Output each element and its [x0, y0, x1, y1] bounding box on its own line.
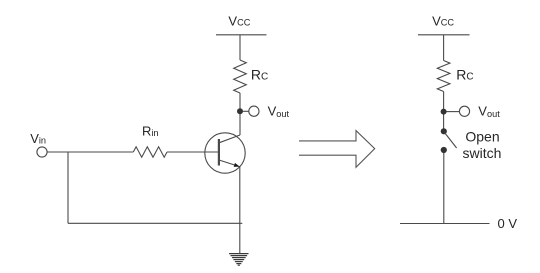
- transistor Q1 body circle: [205, 133, 245, 173]
- wire emitter to ground: [239, 167, 241, 254]
- node Vout junction dot (left): [237, 108, 243, 114]
- wire junction to Vout terminal (right): [446, 111, 459, 113]
- wire Rin to base: [167, 151, 218, 153]
- wire Rc to switch (right): [443, 92, 445, 129]
- wire junction to Vout terminal (left): [243, 110, 249, 112]
- svg-text:Vout: Vout: [268, 104, 290, 119]
- wire Vcc rail to Rc (right): [443, 35, 445, 61]
- ground: [229, 254, 248, 266]
- switch top contact dot: [441, 128, 447, 134]
- Vout terminal circle (right): [459, 106, 469, 116]
- Vout terminal circle (left): [249, 106, 259, 116]
- Vin terminal circle: [37, 147, 47, 157]
- resistor Rin: [133, 147, 167, 157]
- wire Rc to collector: [239, 93, 241, 135]
- node Vout junction dot (right): [441, 109, 447, 115]
- transistor Q1 base bar: [218, 139, 220, 166]
- switch blade: [445, 133, 457, 148]
- resistor Rc (left): [234, 60, 247, 93]
- transistor Q1 emitter diagonal: [219, 160, 240, 167]
- transistor Q1 collector diagonal: [219, 135, 240, 143]
- switch bottom contact dot: [441, 147, 447, 153]
- svg-text:Rin: Rin: [142, 124, 159, 139]
- svg-text:switch: switch: [463, 145, 502, 161]
- wire Vin to Rin: [47, 151, 133, 153]
- resistor Rc (right): [437, 61, 450, 92]
- svg-text:0 V: 0 V: [498, 216, 518, 231]
- svg-text:Open: Open: [465, 129, 499, 145]
- wire bottom horizontal: [68, 222, 242, 224]
- svg-text:RC: RC: [251, 67, 268, 83]
- svg-text:Vout: Vout: [478, 104, 500, 119]
- svg-text:VCC: VCC: [432, 13, 454, 28]
- 0V rail: [400, 223, 490, 225]
- block arrow: [299, 131, 375, 168]
- wire Vcc rail to Rc: [239, 35, 241, 60]
- transistor Q1 emitter arrowhead: [234, 163, 240, 167]
- svg-text:RC: RC: [456, 67, 473, 83]
- svg-text:VCC: VCC: [228, 13, 250, 28]
- svg-text:Vin: Vin: [30, 131, 46, 146]
- wire Vin branch down: [67, 152, 69, 223]
- Vcc rail (right): [418, 34, 470, 36]
- wire switch to 0V rail: [443, 153, 445, 224]
- Vcc rail (left): [216, 34, 267, 36]
